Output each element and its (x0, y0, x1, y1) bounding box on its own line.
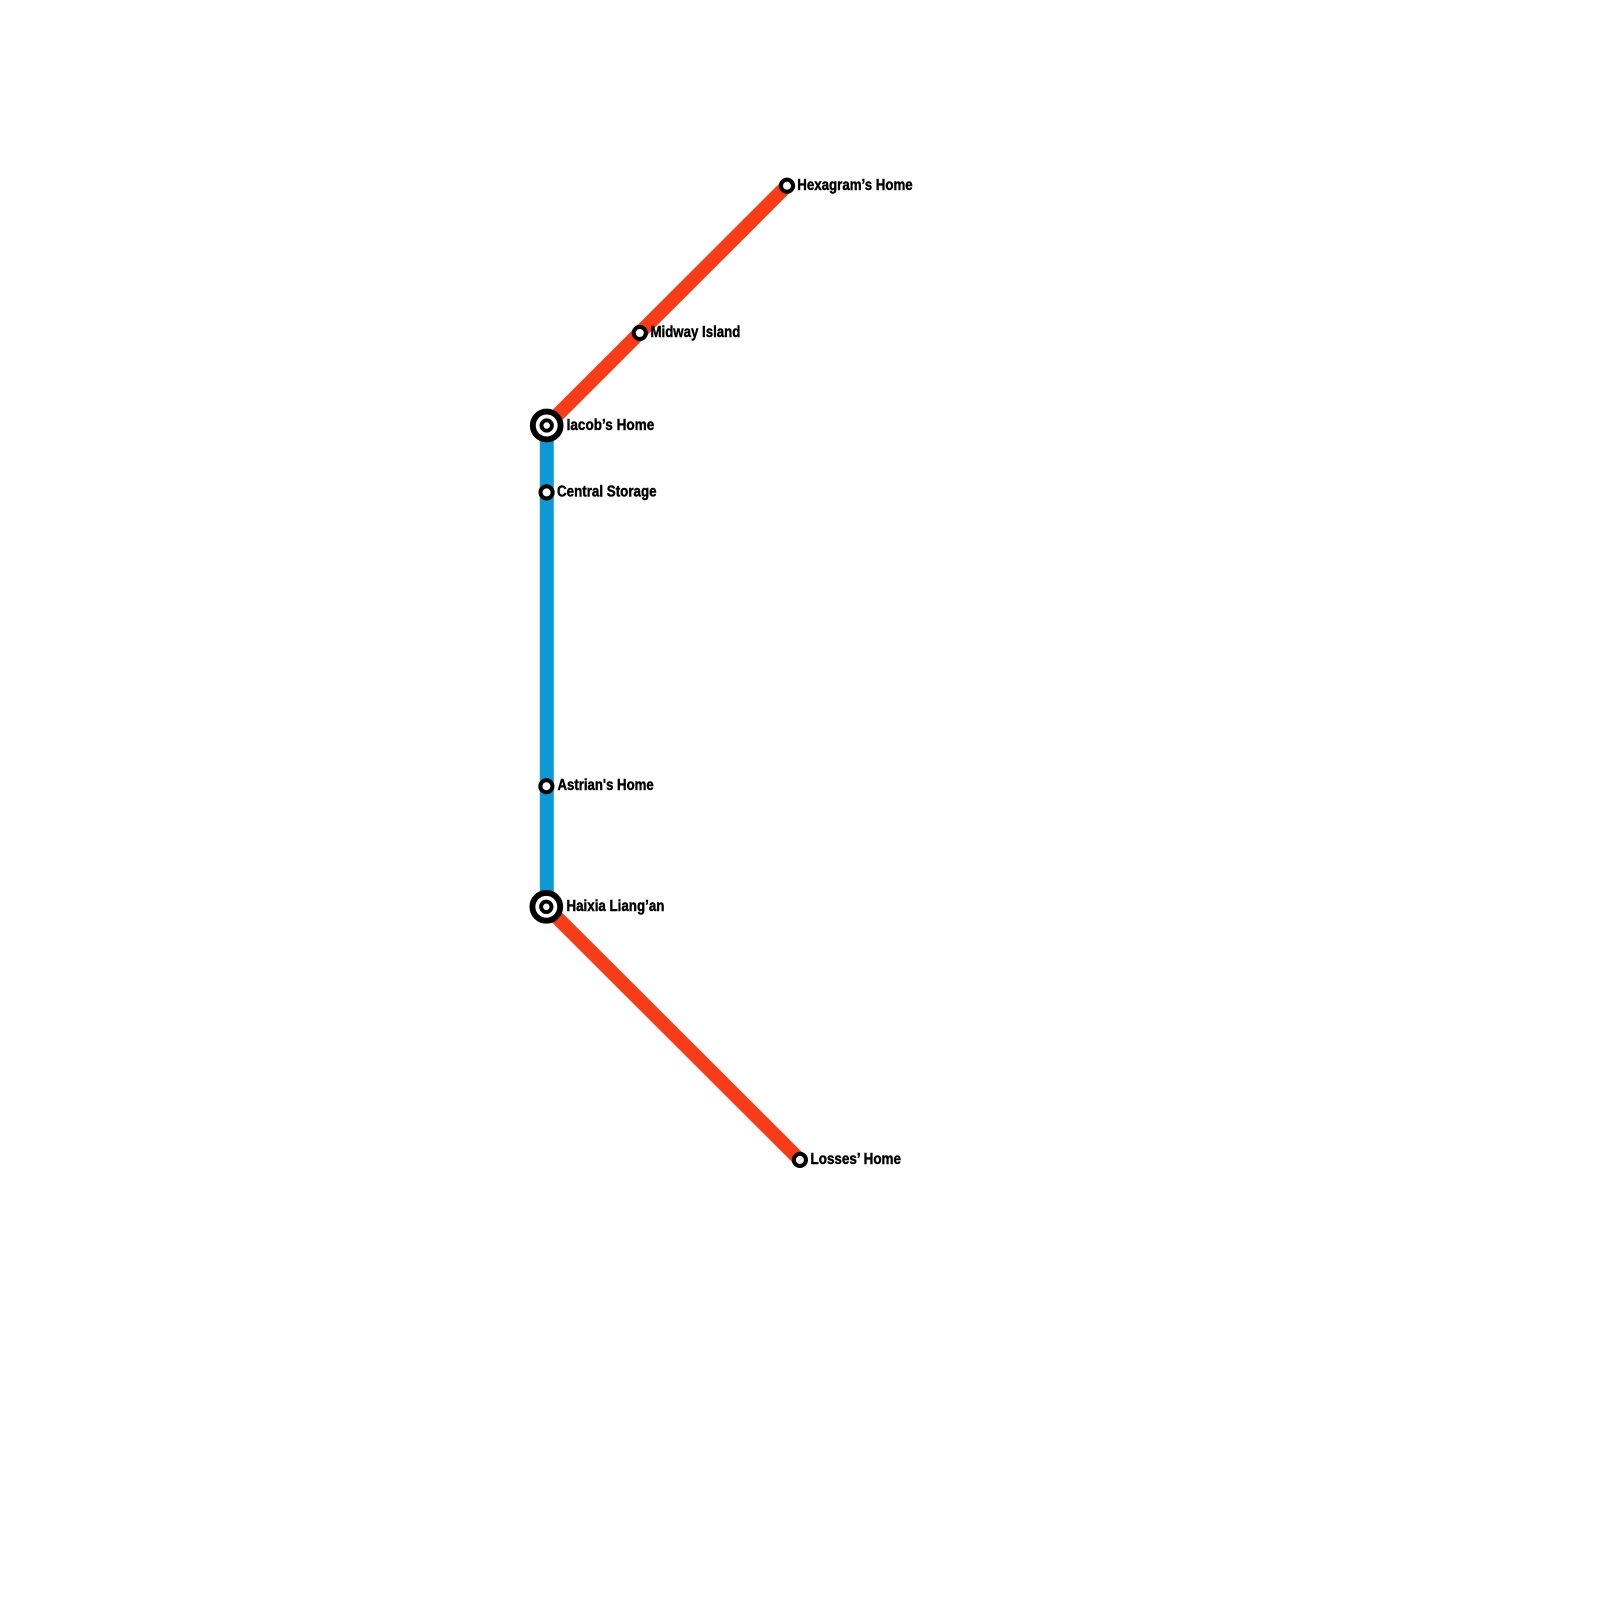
svg-text:Midway Island: Midway Island (651, 324, 741, 341)
svg-text:Losses’ Home: Losses’ Home (811, 1151, 902, 1168)
red line segment Haixia Liang'an to Losses' Home (546, 907, 800, 1160)
svg-text:Iacob’s Home: Iacob’s Home (567, 417, 655, 434)
svg-text:Astrian's Home: Astrian's Home (558, 777, 654, 794)
station Midway Island (634, 327, 646, 339)
interchange station Haixia Liang'an (532, 893, 560, 921)
station Hexagram's Home (781, 180, 793, 192)
station Astrian's Home (540, 780, 552, 792)
svg-text:Haixia Liang’an: Haixia Liang’an (567, 898, 665, 915)
red line segment Hexagram's Home to Iacob's Home (547, 186, 787, 426)
blue line segment Iacob's Home to Haixia Liang'an (540, 426, 554, 907)
svg-text:Central Storage: Central Storage (557, 484, 657, 501)
interchange station Iacob's Home (533, 412, 561, 440)
station Losses' Home (794, 1154, 806, 1166)
svg-text:Hexagram’s Home: Hexagram’s Home (797, 177, 913, 194)
station Central Storage (541, 486, 553, 498)
